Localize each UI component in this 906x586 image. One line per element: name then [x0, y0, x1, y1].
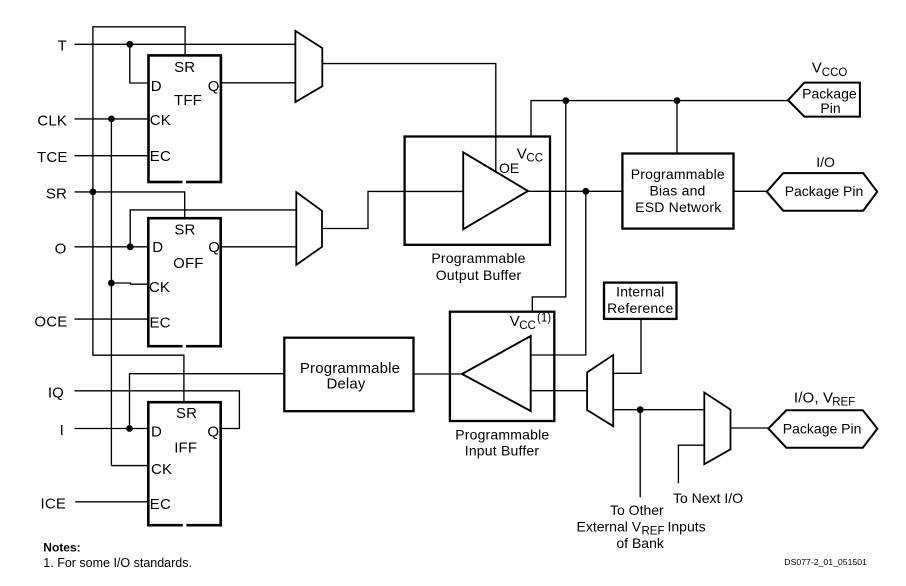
- wire Vcc rail to input buffer Vcc: [532, 101, 566, 312]
- junction dot O: [127, 243, 134, 250]
- svg-text:CC: CC: [526, 153, 543, 165]
- wire T to TFF D: [130, 44, 149, 83]
- svg-text:IFF: IFF: [174, 440, 197, 457]
- wire SR vertical down to IFF route: [93, 192, 184, 402]
- junction dot Vcc rail right: [674, 97, 681, 104]
- wire to next I/O into mux M4: [678, 445, 704, 483]
- wire mux M4 to vref pin: [731, 427, 769, 429]
- svg-text:D: D: [152, 239, 163, 256]
- svg-text:1. For some I/O standards.: 1. For some I/O standards.: [43, 556, 192, 570]
- svg-text:DS077-2_01_051501: DS077-2_01_051501: [784, 557, 867, 567]
- label Vcco: [812, 60, 848, 79]
- svg-text:Delay: Delay: [326, 376, 365, 393]
- svg-text:OFF: OFF: [173, 255, 203, 272]
- box programmable input buffer: [450, 312, 554, 421]
- svg-text:Inputs: Inputs: [668, 519, 706, 535]
- svg-text:of Bank: of Bank: [616, 535, 664, 551]
- mux M4: [704, 393, 730, 465]
- svg-text:CC: CC: [519, 320, 536, 332]
- svg-text:Package: Package: [802, 85, 857, 101]
- wire vref to other inputs of bank: [639, 410, 641, 498]
- wire CLK vertical: [110, 119, 112, 466]
- svg-text:TCE: TCE: [37, 149, 67, 166]
- svg-text:EC: EC: [150, 496, 171, 513]
- svg-text:Programmable: Programmable: [631, 166, 725, 182]
- junction dot pad line: [582, 188, 589, 195]
- label programmable output buffer: [431, 250, 525, 283]
- wire input buffer vref tap to mux M3: [531, 390, 587, 392]
- wire TFF Q to mux M1: [221, 82, 296, 84]
- svg-text:To Other: To Other: [610, 502, 664, 518]
- package pin I/O Vref (hexagon): [768, 410, 877, 447]
- op-amp output buffer triangle: [463, 152, 528, 229]
- label programmable input buffer: [455, 426, 549, 458]
- label to other external vref inputs of bank: [577, 502, 706, 551]
- svg-text:Output Buffer: Output Buffer: [436, 267, 522, 283]
- svg-text:V: V: [812, 60, 822, 77]
- wire SR input: [75, 192, 185, 218]
- wire OFF Q to mux M2: [221, 246, 297, 248]
- svg-text:External V: External V: [577, 519, 642, 535]
- svg-text:Reference: Reference: [607, 300, 673, 316]
- svg-text:Q: Q: [208, 239, 220, 256]
- package pin Vcco (pentagon): [788, 83, 860, 117]
- junction dot I: [126, 425, 133, 432]
- mux M2: [296, 192, 322, 265]
- box internal reference: [604, 283, 677, 319]
- wire programmable delay output to input buffer apex: [414, 373, 463, 375]
- wire CLK input: [75, 118, 149, 120]
- svg-text:D: D: [151, 423, 162, 440]
- junction dot T/D: [126, 41, 133, 48]
- svg-text:ICE: ICE: [41, 495, 66, 512]
- svg-text:CK: CK: [149, 279, 170, 296]
- wire Vcc rail to Vcco pin: [531, 101, 788, 137]
- svg-text:SR: SR: [46, 185, 67, 202]
- wire vref chain mux M3 to mux M4: [613, 409, 704, 411]
- svg-text:Pin: Pin: [820, 100, 840, 116]
- svg-text:TFF: TFF: [174, 92, 202, 109]
- wire internal reference to mux M3: [613, 319, 641, 373]
- svg-text:Input Buffer: Input Buffer: [465, 442, 540, 458]
- svg-text:CK: CK: [151, 461, 172, 478]
- svg-text:Programmable: Programmable: [455, 426, 549, 442]
- svg-text:OE: OE: [499, 160, 519, 176]
- wire Vcc rail to bias network: [676, 101, 678, 154]
- svg-text:Q: Q: [207, 423, 219, 440]
- svg-text:I/O, V: I/O, V: [794, 389, 833, 406]
- wire T input: [75, 43, 296, 45]
- box programmable bias and ESD network: [622, 154, 733, 229]
- box programmable delay: [284, 338, 413, 412]
- junction dot SR: [90, 189, 97, 196]
- svg-text:I/O: I/O: [816, 154, 835, 170]
- flip-flop IFF: [148, 402, 220, 527]
- svg-text:Q: Q: [208, 78, 220, 95]
- svg-text:Bias and: Bias and: [649, 183, 705, 199]
- wire ICE input: [75, 501, 148, 503]
- wire output buffer to ESD network: [528, 190, 622, 192]
- wire ESD network to I/O pin: [734, 190, 767, 192]
- svg-text:EC: EC: [150, 148, 171, 165]
- mux M1: [295, 31, 322, 102]
- wire mux M2 output to output buffer: [322, 191, 463, 228]
- wire pad to input buffer: [531, 191, 586, 355]
- label I/O, Vref: [794, 389, 855, 408]
- wire I input: [75, 428, 149, 430]
- flip-flop OFF: [148, 218, 220, 348]
- svg-text:Programmable: Programmable: [431, 250, 525, 266]
- svg-text:I: I: [60, 422, 64, 439]
- wire IQ output: [75, 391, 240, 429]
- svg-text:OCE: OCE: [34, 313, 67, 330]
- junction dot CLK: [108, 116, 115, 123]
- package pin I/O (hexagon): [767, 173, 877, 211]
- wire O bypass to mux M2: [130, 210, 296, 247]
- svg-text:SR: SR: [174, 222, 195, 239]
- junction dot Vcc rail left: [562, 97, 569, 104]
- svg-text:O: O: [55, 240, 67, 257]
- flip-flop TFF: [149, 55, 221, 184]
- svg-text:CK: CK: [150, 112, 171, 129]
- svg-text:Internal: Internal: [616, 284, 664, 300]
- svg-text:REF: REF: [832, 397, 855, 409]
- op-amp input buffer triangle: [462, 336, 531, 411]
- wire OFF CK: [111, 283, 148, 284]
- svg-text:ESD Network: ESD Network: [635, 199, 722, 215]
- wire IFF CK: [111, 465, 148, 467]
- mux M3: [587, 355, 613, 426]
- svg-text:To Next I/O: To Next I/O: [673, 490, 743, 506]
- svg-text:T: T: [58, 37, 67, 54]
- wire programmable delay input: [130, 374, 285, 429]
- wire OCE input: [75, 318, 149, 320]
- junction dot vref chain: [637, 406, 644, 413]
- svg-text:CCO: CCO: [822, 67, 848, 79]
- svg-text:CLK: CLK: [37, 112, 67, 129]
- box programmable output buffer: [405, 137, 550, 245]
- svg-text:IQ: IQ: [48, 384, 64, 401]
- wire mux M1 output to OE: [322, 64, 496, 172]
- svg-text:D: D: [151, 78, 162, 95]
- svg-text:(1): (1): [537, 313, 551, 325]
- junction dot OFF CK: [108, 280, 115, 287]
- wire O input: [75, 246, 149, 248]
- wire TCE input: [75, 155, 149, 157]
- svg-text:SR: SR: [174, 59, 195, 76]
- svg-text:EC: EC: [150, 314, 171, 331]
- svg-text:SR: SR: [176, 405, 197, 422]
- wire SR top route to TFF SR: [93, 27, 185, 192]
- svg-text:Package Pin: Package Pin: [783, 420, 862, 436]
- svg-text:Notes:: Notes:: [43, 541, 80, 555]
- svg-text:Package Pin: Package Pin: [785, 183, 864, 199]
